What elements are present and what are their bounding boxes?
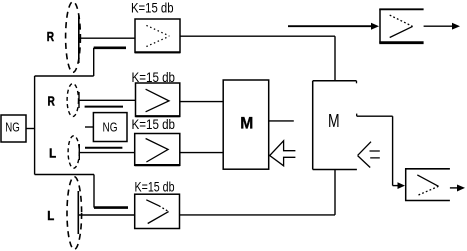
svg-text:R: R (47, 29, 55, 44)
svg-text:K=15 db: K=15 db (132, 117, 176, 132)
transducer left-mid diaphragm line (78, 144, 80, 160)
noise generator NG1 box (1, 115, 26, 142)
svg-text:M: M (328, 111, 340, 131)
output amplifier AO1 (open right box) (379, 9, 381, 43)
wire ch2 thick stub (85, 106, 123, 108)
transducer right-main diaphragm line (78, 15, 80, 63)
output amplifier AO2 (open right box) (405, 168, 407, 201)
wire A3 output to M1 (180, 152, 223, 154)
amplifier A3 box (135, 134, 180, 166)
svg-text:NG: NG (5, 119, 19, 134)
amplifier A4 chevron (half dotted) (146, 200, 159, 206)
transducer left-main (dashed ellipse) (67, 177, 82, 250)
amplifier A1 box (135, 19, 180, 53)
wire bus vertical (34, 76, 36, 175)
wire A4 output to M2 bottom (180, 214, 336, 216)
wire ch2 to amp A2 (79, 99, 136, 101)
svg-text:K=15 db: K=15 db (135, 179, 175, 194)
svg-text:L: L (49, 145, 56, 160)
wire ch3 thick stub (85, 147, 122, 149)
amplifier A4 box (135, 194, 180, 228)
amplifier AO2 chevron (417, 175, 438, 186)
transducer right-mid diaphragm line (78, 92, 80, 108)
mixer M2 (open-right bracket) (312, 81, 314, 170)
wire NG1 to bus (26, 128, 35, 130)
wire bus bottom horizontal (35, 174, 94, 176)
wire ch4 thick stub (94, 206, 128, 209)
amplifier A2 chevron (146, 89, 169, 112)
wire A2 output to M1 (180, 101, 223, 103)
block arrow into M1 (hollow, pointing left) (270, 141, 296, 166)
transducer right-mid (dashed ellipse) (67, 84, 78, 117)
wire into top output amp (with arrowhead) (288, 25, 376, 27)
svg-text:NG: NG (103, 120, 118, 135)
svg-text:M: M (240, 113, 253, 132)
transducer right-main (dashed ellipse) (66, 2, 81, 73)
svg-text:L: L (47, 208, 54, 223)
wire ch1 stub vertical (93, 48, 95, 76)
wire ch4 to amp A4 (78, 214, 134, 216)
wire ch3 to amp A3 (79, 152, 134, 154)
svg-text:R: R (48, 93, 56, 108)
wire AO1 output with arrowhead (424, 25, 453, 27)
amplifier AO1 chevron (390, 15, 413, 26)
wire AO2 output with arrowhead (450, 187, 458, 189)
mixer M1 box (223, 80, 269, 169)
svg-text:K=15 db: K=15 db (131, 0, 174, 15)
amplifier A2 box (136, 83, 180, 116)
wire ch1 to amp A1 (79, 37, 135, 39)
wire ch4 stub vertical (93, 175, 95, 208)
wire NG2 stub (85, 126, 93, 128)
noise generator NG2 box (93, 113, 127, 142)
wire M2 tap to bottom output amp (356, 114, 358, 117)
arrow glyph into M2 (pointing left) (358, 142, 380, 168)
wire bus top horizontal (35, 75, 94, 77)
transducer left-mid (dashed ellipse) (68, 136, 79, 168)
amplifier A3 chevron (146, 139, 169, 163)
wire A1 output to M2 top (180, 35, 335, 37)
transducer left-main diaphragm line (77, 191, 79, 234)
wire ch1 thick stub (94, 46, 126, 49)
wire M1 output stub (269, 120, 294, 122)
amplifier A1 chevron (dotted) (146, 25, 169, 46)
